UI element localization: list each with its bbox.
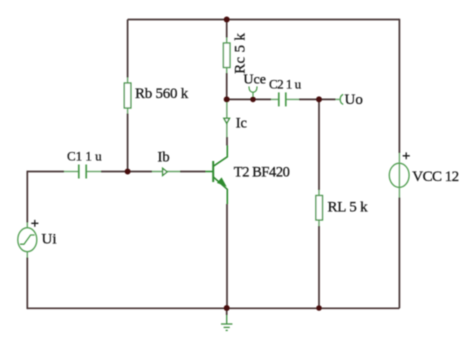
svg-text:RL 5 k: RL 5 k — [328, 200, 369, 216]
svg-text:C1 1 u: C1 1 u — [67, 148, 102, 163]
svg-text:Rc 5 k: Rc 5 k — [232, 33, 248, 74]
svg-text:T2 BF420: T2 BF420 — [234, 165, 290, 181]
svg-text:Uce: Uce — [243, 72, 266, 87]
svg-text:Ib: Ib — [158, 150, 170, 166]
svg-text:+: + — [31, 217, 39, 232]
svg-text:C2 1 u: C2 1 u — [269, 77, 302, 92]
svg-text:Ui: Ui — [42, 232, 57, 248]
svg-text:VCC 12: VCC 12 — [412, 169, 458, 185]
svg-text:Ic: Ic — [236, 115, 247, 131]
svg-text:Rb 560 k: Rb 560 k — [135, 86, 189, 102]
svg-text:+: + — [402, 150, 410, 165]
svg-text:Uo: Uo — [345, 92, 363, 108]
